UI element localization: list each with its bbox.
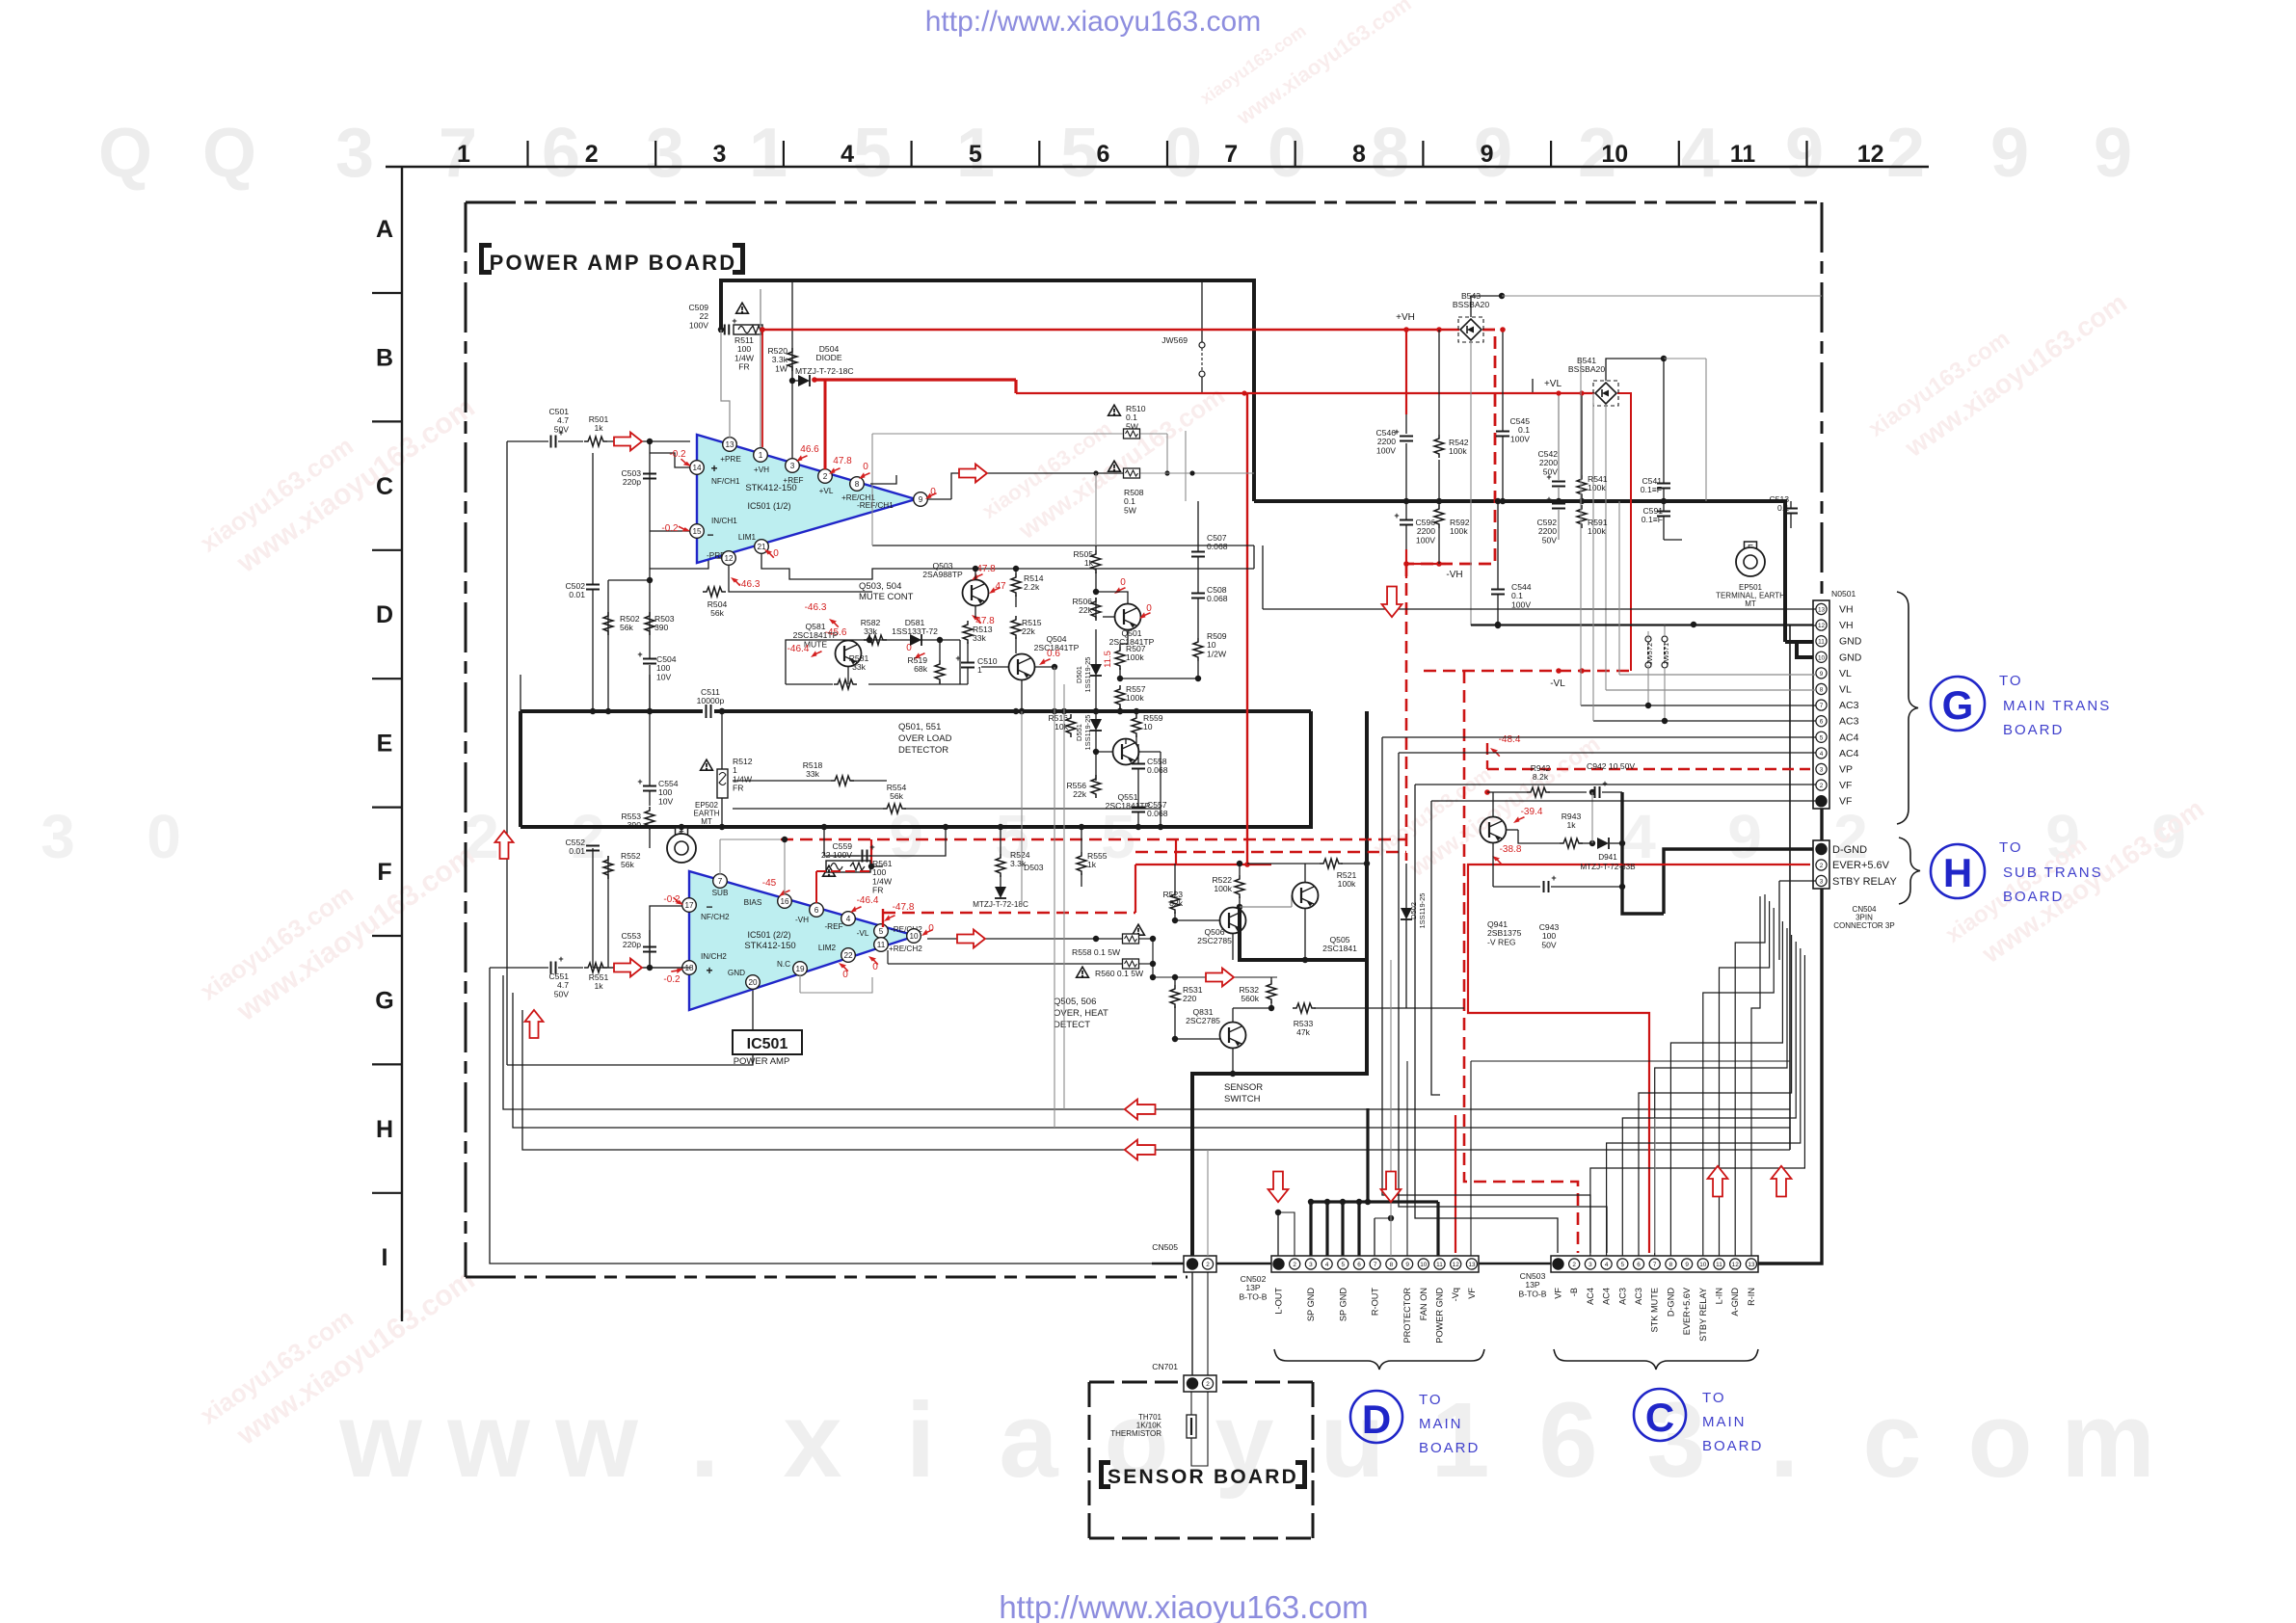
svg-text:1: 1 xyxy=(759,451,763,460)
capacitor C943 xyxy=(1543,881,1545,892)
wire red thick rail y394 xyxy=(814,378,1016,381)
svg-text:-0.2: -0.2 xyxy=(663,974,681,985)
wire red dashed y884 xyxy=(1135,851,1406,854)
resistor R559 xyxy=(1132,714,1141,737)
resistor R520 xyxy=(788,348,797,371)
svg-text:FR: FR xyxy=(733,784,743,793)
wire thick left vertical xyxy=(519,711,522,827)
svg-text:D: D xyxy=(376,601,393,628)
svg-text:MT: MT xyxy=(701,817,712,826)
resistor R508 box xyxy=(1124,468,1140,478)
svg-text:c: c xyxy=(1862,1381,1921,1500)
wire protector column xyxy=(1406,1061,1408,1256)
svg-text:A: A xyxy=(376,216,393,243)
wire red b541 output xyxy=(1617,393,1631,671)
svg-text:11: 11 xyxy=(1436,1262,1443,1268)
wire r507 row xyxy=(1120,678,1200,679)
wire pin15 line xyxy=(650,530,690,532)
resistor R510 box xyxy=(1124,429,1140,439)
svg-text:1k: 1k xyxy=(594,981,603,991)
IC501 pin 4 xyxy=(841,912,856,926)
svg-text:14: 14 xyxy=(692,464,702,472)
svg-text:MUTE CONT: MUTE CONT xyxy=(859,592,914,602)
svg-text:-0.2: -0.2 xyxy=(661,523,679,534)
arrow input ch2 xyxy=(614,959,642,977)
CN503 pin 6 xyxy=(1633,1259,1643,1269)
wire left input vertical ch1 xyxy=(506,441,508,1065)
svg-text:AC4: AC4 xyxy=(1602,1288,1612,1305)
SENSOR BOARD title xyxy=(1099,1460,1307,1489)
svg-text:Q: Q xyxy=(98,115,152,192)
diode D503 xyxy=(995,887,1006,898)
svg-text:+REF: +REF xyxy=(783,476,803,485)
wire mute row y664 xyxy=(821,639,960,641)
svg-text:LIM2: LIM2 xyxy=(818,944,837,952)
wire c509 node xyxy=(718,327,724,333)
svg-text:9: 9 xyxy=(919,495,923,504)
SENSOR BOARD frame dashed border xyxy=(1089,1381,1178,1384)
svg-text:4: 4 xyxy=(846,915,851,923)
svg-text:100V: 100V xyxy=(689,320,708,330)
POWER AMP BOARD frame dashed border xyxy=(466,201,1822,204)
wire r554 row xyxy=(733,808,883,810)
brace G group xyxy=(1897,592,1918,824)
arrow down cn502 a xyxy=(1268,1172,1289,1203)
resistor R502 xyxy=(603,612,613,635)
N0501 pin 8 VL xyxy=(1816,683,1827,694)
svg-text:47.8: 47.8 xyxy=(833,456,852,466)
svg-text:5: 5 xyxy=(1820,734,1824,741)
resistor R513 xyxy=(963,621,973,644)
svg-text:DIODE: DIODE xyxy=(815,353,841,362)
capacitor C510 xyxy=(961,662,974,664)
fusible resistor R511 xyxy=(734,325,762,334)
decorative watermark row top (not labeled further) xyxy=(98,115,2132,192)
N0501 pin 6 AC3 xyxy=(1816,716,1827,727)
svg-text:2: 2 xyxy=(585,141,599,168)
wire thick VF to CN504 xyxy=(1820,808,1823,842)
svg-text:12: 12 xyxy=(1732,1262,1740,1268)
svg-text:E: E xyxy=(377,731,393,758)
svg-text:100V: 100V xyxy=(1416,535,1435,545)
svg-text:7: 7 xyxy=(1820,703,1824,709)
capacitor C545 xyxy=(1496,431,1509,433)
wire r555 xyxy=(1081,827,1082,852)
svg-text:−: − xyxy=(706,900,712,914)
svg-text:3: 3 xyxy=(1589,1262,1592,1268)
svg-text:SP GND: SP GND xyxy=(1306,1288,1316,1321)
svg-text:100k: 100k xyxy=(1450,526,1468,536)
arrow input ch1 xyxy=(614,433,642,451)
svg-text:100V: 100V xyxy=(1510,434,1530,443)
svg-text:1: 1 xyxy=(457,141,470,168)
svg-text:BOARD: BOARD xyxy=(2003,722,2064,738)
wire q941 bottom xyxy=(1492,843,1494,887)
resistor R556 xyxy=(1091,775,1101,798)
wire c501 xyxy=(507,440,548,442)
svg-text:9: 9 xyxy=(1405,1262,1409,1268)
svg-text:Q501, 551: Q501, 551 xyxy=(898,722,941,732)
svg-text:AC3: AC3 xyxy=(1617,1288,1627,1305)
wire CN503 pin 8 run xyxy=(1670,921,1782,1256)
capacitor C513 xyxy=(1784,508,1798,510)
svg-text:6: 6 xyxy=(1097,141,1110,168)
connector N0501 xyxy=(1813,600,1829,809)
wire c502 column xyxy=(592,453,594,584)
svg-text:7: 7 xyxy=(1374,1262,1377,1268)
CN503 pin 13 xyxy=(1746,1259,1756,1269)
svg-text:CN505: CN505 xyxy=(1152,1242,1178,1252)
N0501 pin 9 VL xyxy=(1816,668,1827,678)
svg-text:390: 390 xyxy=(627,820,642,830)
svg-text:Q: Q xyxy=(202,115,256,192)
wire r518 xyxy=(733,780,831,782)
wire q503 emitter xyxy=(974,606,976,618)
wire vl pin9 xyxy=(1619,674,1816,676)
svg-text:3: 3 xyxy=(335,115,374,192)
svg-text:0: 0 xyxy=(1268,115,1306,192)
svg-text:IN/CH2: IN/CH2 xyxy=(701,952,727,961)
wire q551 xyxy=(1096,751,1112,753)
CN503 pin 4 xyxy=(1601,1259,1612,1269)
svg-text:22 100V: 22 100V xyxy=(821,850,852,860)
brace H group xyxy=(1899,838,1920,904)
ruler left line xyxy=(401,167,403,1321)
svg-text:D551: D551 xyxy=(1075,724,1083,741)
svg-text:56k: 56k xyxy=(890,791,904,801)
svg-text:VH: VH xyxy=(1839,604,1854,616)
svg-text:CN701: CN701 xyxy=(1152,1362,1178,1371)
svg-text:GND: GND xyxy=(1839,636,1862,648)
op-amp IC501 (1/2) STK412-150 xyxy=(697,435,916,563)
svg-text:0: 0 xyxy=(1146,603,1152,614)
diode D941 xyxy=(1597,838,1609,849)
wire ch2 feedback line 1 xyxy=(503,975,1790,1109)
wire thick gnd pin11 xyxy=(1785,640,1814,644)
wire r521 row xyxy=(1247,863,1320,865)
svg-text:2: 2 xyxy=(1820,863,1824,869)
wire thick comb above CN502 xyxy=(1311,1200,1438,1203)
svg-text:2SA988TP: 2SA988TP xyxy=(922,570,963,579)
wire gnd pin20 down xyxy=(507,990,753,1065)
wire x1196 down xyxy=(1152,939,1154,977)
svg-text:6: 6 xyxy=(542,115,580,192)
wire ac3 pin7 xyxy=(1581,705,1816,706)
wire ep502 xyxy=(681,827,682,834)
svg-text:2.2k: 2.2k xyxy=(1024,582,1040,592)
wire red -VH to bottom dashed xyxy=(1405,564,1408,861)
wire red dashed VP feed xyxy=(1487,768,1810,770)
warning R508 xyxy=(1108,461,1121,471)
connector label D xyxy=(1350,1391,1402,1443)
resistor R558 box xyxy=(1123,934,1139,944)
capacitor C591 xyxy=(1657,511,1670,513)
svg-text:D501: D501 xyxy=(1075,666,1083,683)
CN502 pin 9 xyxy=(1402,1259,1413,1269)
svg-text:x: x xyxy=(783,1381,841,1500)
svg-text:7: 7 xyxy=(1224,141,1238,168)
svg-text:POWER AMP: POWER AMP xyxy=(734,1056,790,1067)
wire c541 xyxy=(1663,359,1665,483)
svg-text:m: m xyxy=(2061,1381,2155,1500)
wire red dashed to CN503 xyxy=(1464,671,1578,1253)
wire d502 xyxy=(1405,864,1407,908)
svg-text:2: 2 xyxy=(1572,1262,1576,1268)
svg-text:L-IN: L-IN xyxy=(1715,1288,1724,1304)
svg-text:A-GND: A-GND xyxy=(1730,1288,1740,1317)
wire vl pin8 xyxy=(1606,689,1816,691)
svg-text:-B: -B xyxy=(1569,1288,1579,1296)
svg-text:10: 10 xyxy=(1699,1262,1707,1268)
wire CN503 pin 4 run xyxy=(1607,948,1801,1256)
wire b543 bottom gray xyxy=(1470,342,1472,625)
wire cn505 pin2 riser xyxy=(1207,1150,1209,1256)
wire r505 xyxy=(1095,545,1097,550)
wire r559 xyxy=(1135,711,1137,714)
svg-text:-VL: -VL xyxy=(1550,678,1565,689)
wire r553 xyxy=(649,830,651,848)
wire T2 out xyxy=(927,938,1122,940)
svg-text:http://www.xiaoyu163.com: http://www.xiaoyu163.com xyxy=(925,6,1262,38)
diode D501 xyxy=(1090,664,1102,676)
svg-text:50V: 50V xyxy=(554,989,570,998)
svg-text:3: 3 xyxy=(712,141,726,168)
svg-text:R558 0.1 5W: R558 0.1 5W xyxy=(1072,947,1121,957)
svg-text:SWITCH: SWITCH xyxy=(1224,1094,1261,1104)
svg-text:100k: 100k xyxy=(1588,526,1606,536)
wire thick gnd pin10 xyxy=(1797,642,1814,657)
resistor R532 xyxy=(1267,980,1276,1003)
connector label G xyxy=(1931,677,1985,731)
svg-text:1k: 1k xyxy=(594,423,603,433)
wire pin21 step xyxy=(761,554,1254,579)
wire T2 in net xyxy=(650,906,690,968)
CN502 pin 7 xyxy=(1370,1259,1380,1269)
wire r523 xyxy=(1174,864,1176,891)
svg-text:GND: GND xyxy=(728,969,745,977)
svg-text:STBY RELAY: STBY RELAY xyxy=(1832,876,1898,888)
CN504 pin 1 D-GND xyxy=(1815,843,1827,855)
svg-text:R-OUT: R-OUT xyxy=(1371,1288,1380,1316)
arrow left line3 xyxy=(1125,1140,1156,1160)
svg-text:22: 22 xyxy=(843,951,853,960)
svg-text:8: 8 xyxy=(1352,141,1366,168)
svg-text:.: . xyxy=(690,1381,720,1500)
wire q506 base xyxy=(1175,919,1220,921)
wire protector link xyxy=(1406,1060,1408,1062)
wire CN502 gnd drop xyxy=(1325,1202,1328,1256)
IC501 pin 11 xyxy=(874,938,889,952)
svg-text:13: 13 xyxy=(1818,607,1826,614)
wire red near R561 link xyxy=(870,839,872,865)
IC501 pin 13 xyxy=(723,438,737,452)
svg-text:22k: 22k xyxy=(1073,789,1087,799)
svg-text:C: C xyxy=(376,473,393,500)
wire b541 top xyxy=(1606,359,1664,381)
svg-text:100V: 100V xyxy=(1511,599,1531,609)
CN503 pin 10 xyxy=(1697,1259,1708,1269)
svg-text:VF: VF xyxy=(1839,796,1852,808)
wire r551 out xyxy=(607,967,690,969)
fusible resistor R561 xyxy=(826,861,870,872)
IC501 pin 2 xyxy=(818,469,833,484)
svg-text:D-GND: D-GND xyxy=(1666,1288,1675,1317)
wire r561 xyxy=(868,864,874,869)
wire c943 xyxy=(1551,886,1622,888)
resistor R516 xyxy=(1066,714,1076,737)
terminal EP502 earth xyxy=(676,828,688,840)
svg-text:9: 9 xyxy=(1820,671,1824,678)
wire q581 xyxy=(847,639,849,641)
wire red drop to pin1 xyxy=(761,330,763,447)
resistor R531 xyxy=(1170,985,1180,1008)
svg-text:390: 390 xyxy=(654,623,669,632)
wire r541 xyxy=(1581,393,1583,475)
svg-text:STK MUTE: STK MUTE xyxy=(1650,1288,1660,1332)
wire CN503 pin 5 run xyxy=(1622,942,1796,1256)
svg-text:1k: 1k xyxy=(1087,860,1097,869)
wire r524 xyxy=(1000,827,1001,854)
CN502 pin 11 xyxy=(1434,1259,1445,1269)
capacitor C558 xyxy=(1132,763,1145,765)
CN503 pin 2 xyxy=(1569,1259,1580,1269)
svg-text:BOARD: BOARD xyxy=(1702,1438,1763,1454)
svg-text:OVER LOAD: OVER LOAD xyxy=(898,733,952,744)
svg-text:0.6: 0.6 xyxy=(1047,649,1060,659)
wire c942 r943 link xyxy=(1591,792,1593,843)
wire d504 left xyxy=(792,380,798,382)
wire ac4 columns down xyxy=(1382,737,1590,1253)
IC501 pin 3 xyxy=(786,459,800,473)
svg-text:TO: TO xyxy=(1999,673,2023,689)
svg-text:D-GND: D-GND xyxy=(1832,844,1867,856)
wire vf link xyxy=(1471,1060,1790,1062)
wire CN503 pin 13 run xyxy=(1751,896,1760,1256)
rectifier B541 xyxy=(1593,381,1618,406)
svg-text:http://www.xiaoyu163.com: http://www.xiaoyu163.com xyxy=(999,1589,1368,1623)
svg-text:19: 19 xyxy=(795,965,805,973)
svg-text:12: 12 xyxy=(1818,623,1826,629)
wire fan on column xyxy=(1390,960,1392,1256)
svg-text:EVER+5.6V: EVER+5.6V xyxy=(1682,1287,1692,1335)
N0501 pin 4 AC4 xyxy=(1816,748,1827,758)
capacitor C554 xyxy=(643,785,656,787)
svg-text:2SC2785: 2SC2785 xyxy=(1186,1016,1220,1025)
svg-text:TO: TO xyxy=(1702,1390,1726,1406)
wire q504 base row xyxy=(981,666,1008,668)
svg-text:13: 13 xyxy=(1468,1262,1476,1268)
wire c507/c508 xyxy=(1197,501,1199,551)
svg-text:33k: 33k xyxy=(852,662,867,672)
svg-text:R560 0.1 5W: R560 0.1 5W xyxy=(1095,969,1144,978)
wire ch2 feedback line 2 xyxy=(513,993,1790,1128)
wire y861 junction xyxy=(943,824,948,830)
resistor R519 xyxy=(935,660,945,683)
svg-text:1: 1 xyxy=(749,115,788,192)
svg-text:+: + xyxy=(637,650,642,659)
svg-text:100k: 100k xyxy=(1588,483,1606,492)
svg-text:560k: 560k xyxy=(1241,994,1259,1003)
wire r532 xyxy=(1270,977,1272,980)
svg-text:-46.4: -46.4 xyxy=(788,644,810,654)
svg-text:12: 12 xyxy=(1857,141,1884,168)
wire R560 row xyxy=(888,963,1122,965)
IC501 box label xyxy=(733,1030,802,1054)
svg-text:-39.4: -39.4 xyxy=(1521,807,1543,817)
IC501 pin 8 xyxy=(850,477,865,492)
wire r592 xyxy=(1438,501,1440,505)
wire r520 xyxy=(791,365,793,381)
svg-text:-V REG: -V REG xyxy=(1487,937,1516,946)
wire q941 top xyxy=(1492,792,1494,816)
svg-text:B-TO-B: B-TO-B xyxy=(1519,1289,1547,1298)
svg-text:POWER AMP BOARD: POWER AMP BOARD xyxy=(490,251,737,275)
svg-text:IN/CH1: IN/CH1 xyxy=(711,517,737,525)
svg-text:+: + xyxy=(637,777,642,786)
svg-text:13: 13 xyxy=(725,440,734,449)
wire r514 xyxy=(1015,569,1017,573)
svg-text:33k: 33k xyxy=(973,633,987,643)
svg-text:3: 3 xyxy=(1820,879,1824,886)
wire c542 xyxy=(1558,393,1560,481)
svg-text:GND: GND xyxy=(1839,652,1862,663)
transistor Q831 xyxy=(1220,1023,1246,1049)
arrow up far left xyxy=(495,831,514,859)
svg-text:-47.8: -47.8 xyxy=(893,902,915,913)
wire red -VL dashed xyxy=(1424,670,1631,673)
svg-text:6: 6 xyxy=(1538,1381,1597,1500)
svg-text:D502: D502 xyxy=(1409,902,1418,919)
wire right vertical bundle xyxy=(1789,625,1791,1150)
svg-text:THERMISTOR: THERMISTOR xyxy=(1110,1429,1161,1438)
svg-text:2: 2 xyxy=(571,802,605,871)
svg-text:MTZJ-T-72-33B: MTZJ-T-72-33B xyxy=(1580,863,1636,871)
wire r512 xyxy=(721,711,723,769)
svg-text:-46.3: -46.3 xyxy=(805,602,827,613)
svg-text:o: o xyxy=(1967,1381,2032,1500)
wire c596 xyxy=(1405,501,1407,519)
svg-text:7: 7 xyxy=(718,877,723,886)
svg-text:BOARD: BOARD xyxy=(2003,889,2064,905)
svg-text:-VH: -VH xyxy=(1446,570,1462,580)
svg-text:SP GND: SP GND xyxy=(1338,1288,1348,1321)
svg-text:TO: TO xyxy=(1999,839,2023,856)
svg-text:MT: MT xyxy=(1745,599,1756,608)
svg-text:33k: 33k xyxy=(864,626,878,636)
svg-text:3: 3 xyxy=(1309,1262,1313,1268)
resistor R552 xyxy=(603,856,613,879)
resistor R524 xyxy=(996,854,1005,877)
resistor R522 xyxy=(1235,875,1244,898)
svg-text:AC3: AC3 xyxy=(1839,700,1859,711)
capacitor C596 xyxy=(1400,519,1413,521)
wire jw569 down xyxy=(1201,377,1203,392)
svg-text:17: 17 xyxy=(684,901,694,910)
wire to pin13 xyxy=(721,330,730,438)
wire thick mid bus y520 xyxy=(1254,501,1785,642)
svg-text:0.01: 0.01 xyxy=(569,590,585,599)
resistor R555 xyxy=(1077,852,1086,875)
wire stk mute gray xyxy=(1654,1118,1656,1253)
CN503 pin 9 xyxy=(1682,1259,1693,1269)
svg-text:MTZJ-T-72-18C: MTZJ-T-72-18C xyxy=(973,900,1028,909)
svg-text:FR: FR xyxy=(872,886,883,895)
diode D502 xyxy=(1401,908,1412,919)
wire red EVER+5.6V from CN504 xyxy=(1468,865,1810,1253)
wire red riser x1178 xyxy=(1135,865,1136,913)
svg-text:VF: VF xyxy=(1839,780,1852,791)
resistor R501 xyxy=(584,437,607,446)
